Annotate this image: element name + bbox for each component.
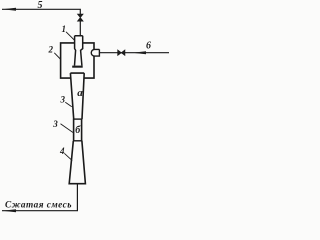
joint flange below throat <box>73 140 83 142</box>
nozzle N1 stem (work nozzle, pos.1) <box>75 36 83 66</box>
arrow on right suction pipe <box>133 51 147 54</box>
arrow on bottom outlet pipe <box>3 209 17 212</box>
svg-text:Сжатая смесь: Сжатая смесь <box>5 201 72 211</box>
joint flange above throat <box>73 118 83 120</box>
leader line for label 2 <box>54 53 61 60</box>
leader line for label 3 (lower) <box>61 124 74 133</box>
wire: right suction pipe (line 6) <box>99 52 169 54</box>
svg-text:6: 6 <box>146 41 151 52</box>
suction port connector on right wall <box>91 49 99 56</box>
mixing chamber inlet cone (section a) <box>70 73 84 119</box>
valve on right suction pipe <box>118 50 125 55</box>
nozzle N1 exit cap <box>72 66 83 68</box>
svg-text:1: 1 <box>62 24 67 34</box>
wire: bottom outlet pipe <box>2 184 77 211</box>
svg-text:5: 5 <box>38 0 43 11</box>
arrow on top feed pipe <box>3 8 17 11</box>
wire: top feed pipe (steam supply, line 5) <box>2 9 80 36</box>
receiving chamber box (pos.2) <box>61 43 94 78</box>
leader line for label 1 <box>66 32 75 41</box>
svg-text:3: 3 <box>60 94 66 104</box>
leader line for label 3 (upper) <box>65 102 72 107</box>
svg-text:a: a <box>77 87 83 99</box>
svg-text:3: 3 <box>52 119 58 129</box>
leader line for label 4 <box>64 153 72 160</box>
throat section (cylinder, section b) <box>74 119 82 141</box>
svg-text:4: 4 <box>59 146 65 156</box>
diffuser (pos.4) <box>69 141 85 184</box>
svg-text:2: 2 <box>48 45 54 55</box>
valve on top feed pipe <box>78 14 84 21</box>
